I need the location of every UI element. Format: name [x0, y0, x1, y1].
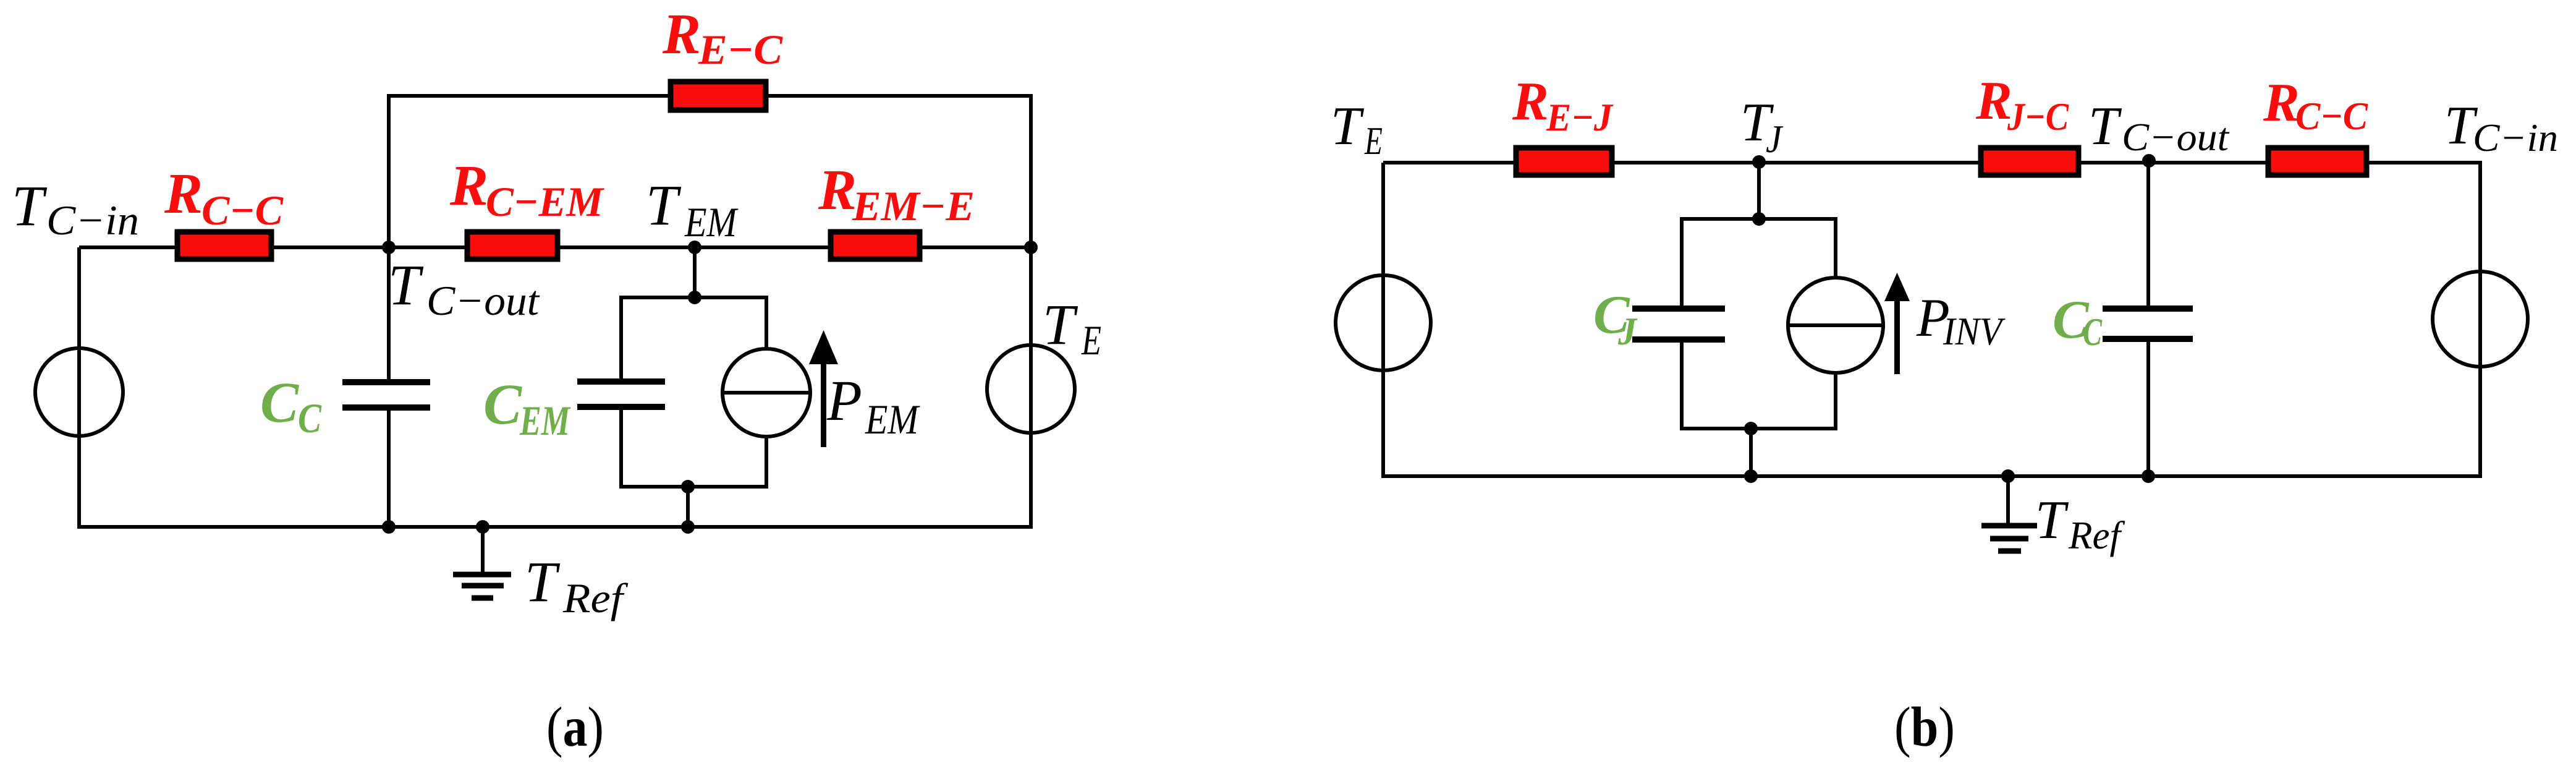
svg-text:Ref: Ref [562, 574, 629, 621]
svg-text:T: T [2035, 490, 2069, 550]
svg-text:C−out: C−out [426, 277, 540, 324]
svg-text:Ref: Ref [2068, 513, 2125, 557]
svg-text:(a): (a) [546, 696, 604, 758]
svg-text:R: R [1512, 72, 1549, 132]
svg-text:C−in: C−in [2473, 116, 2558, 160]
svg-text:T: T [525, 550, 561, 614]
svg-text:R: R [164, 162, 203, 226]
svg-text:EM−E: EM−E [852, 182, 975, 229]
svg-text:EM: EM [684, 199, 739, 246]
svg-text:P: P [826, 369, 862, 433]
svg-text:C−EM: C−EM [486, 178, 604, 225]
svg-text:J: J [1617, 309, 1638, 353]
svg-text:C: C [483, 373, 522, 437]
svg-text:C: C [2083, 310, 2103, 354]
svg-text:J−C: J−C [2007, 95, 2069, 139]
svg-text:R: R [1975, 71, 2012, 131]
svg-text:T: T [1331, 96, 1365, 156]
svg-text:C−out: C−out [2122, 115, 2230, 159]
svg-text:C−in: C−in [46, 197, 139, 244]
svg-text:C−C: C−C [201, 187, 284, 234]
svg-text:C: C [260, 371, 299, 435]
svg-text:T: T [388, 254, 424, 317]
svg-text:INV: INV [1943, 309, 2006, 353]
svg-text:R: R [818, 158, 857, 222]
svg-text:R: R [2263, 73, 2300, 133]
svg-text:R: R [449, 154, 488, 218]
svg-text:EM: EM [865, 396, 920, 443]
svg-text:EM: EM [519, 397, 571, 444]
svg-text:E−J: E−J [1546, 95, 1614, 139]
svg-text:E: E [1364, 119, 1383, 163]
svg-text:T: T [646, 174, 682, 237]
svg-text:T: T [1043, 293, 1078, 357]
svg-text:R: R [662, 2, 701, 66]
svg-text:J: J [1766, 117, 1783, 161]
svg-text:(b): (b) [1894, 696, 1955, 758]
svg-text:E: E [1081, 317, 1101, 364]
svg-text:C−C: C−C [2295, 94, 2368, 138]
svg-text:E−C: E−C [698, 26, 783, 73]
svg-text:C: C [298, 395, 322, 442]
svg-text:T: T [2088, 96, 2122, 156]
svg-text:T: T [12, 174, 48, 238]
